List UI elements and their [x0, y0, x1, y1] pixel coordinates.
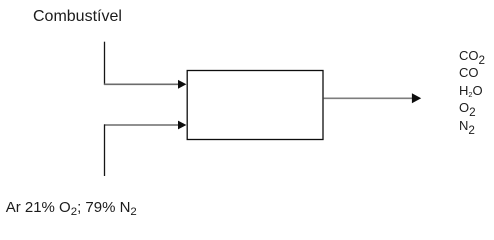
- wire: fuel vertical drop: [104, 42, 106, 85]
- output species list: CO2 CO H2O O2 N2: [459, 47, 485, 134]
- arrowhead: air into box: [178, 121, 186, 130]
- label: Ar 21% O2; 79% N2 (air inlet): [6, 200, 137, 215]
- arrowhead: fuel into box: [178, 80, 186, 89]
- arrowhead: output: [412, 93, 421, 103]
- box: combustion chamber: [187, 71, 323, 140]
- wire: output shaft: [324, 97, 413, 99]
- wire: air vertical drop: [104, 124, 106, 176]
- wire: air horizontal shaft: [104, 124, 179, 126]
- wire: fuel horizontal shaft: [104, 83, 179, 85]
- label: Combustível (fuel inlet): [33, 9, 122, 25]
